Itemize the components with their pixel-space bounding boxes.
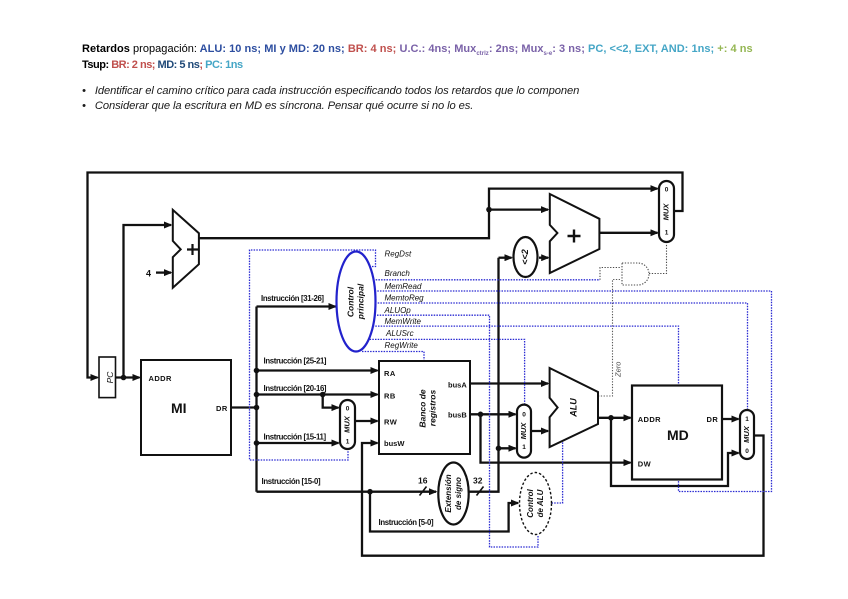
- wire ALU result to MD ADDR: [599, 417, 631, 419]
- svg-text:busW: busW: [384, 439, 405, 448]
- svg-text:RegWrite: RegWrite: [385, 341, 419, 350]
- wire instruccion 25-21 to RA: [257, 369, 378, 371]
- svg-text:0: 0: [522, 412, 526, 419]
- signal ALU control output: [552, 441, 563, 503]
- wire busB to ALUSrc mux0: [470, 413, 516, 415]
- signal MemWrite: [373, 326, 679, 384]
- svg-text:1: 1: [665, 230, 669, 237]
- wire PC out up to +4 adder: [124, 225, 172, 378]
- svg-text:0: 0: [665, 187, 669, 194]
- wire AND output to mux select: [649, 244, 667, 274]
- svg-text:0: 0: [346, 405, 350, 412]
- wire ALUSrc mux out to ALU: [531, 430, 548, 432]
- ALU: [550, 368, 598, 447]
- wire instruction bus from DR: [231, 406, 257, 408]
- svg-text:busB: busB: [448, 411, 467, 420]
- svg-text:DW: DW: [638, 460, 652, 469]
- wire branch to AND top input: [600, 268, 621, 280]
- memory MI: [141, 360, 231, 455]
- svg-text:ADDR: ADDR: [149, 374, 172, 383]
- mux ALUSrc: [517, 405, 531, 458]
- width marks 16 / 32: [420, 487, 484, 496]
- svg-text:MD: MD: [667, 427, 689, 443]
- adder PC+4: [146, 210, 199, 288]
- svg-text:MemWrite: MemWrite: [385, 317, 422, 326]
- wire PC to MI ADDR: [116, 376, 140, 378]
- signal MemtoReg: [375, 303, 748, 409]
- svg-text:de ALU: de ALU: [536, 489, 545, 517]
- AND gate (dotted): [598, 244, 667, 397]
- wire instruccion 20-16 to RB: [257, 393, 378, 395]
- wire regdst mux out to RW: [355, 420, 378, 422]
- svg-text:ALUOp: ALUOp: [384, 306, 412, 315]
- signal ALUOp: [374, 315, 538, 547]
- wire shift left 2 output to branch adder: [539, 257, 548, 259]
- mux PCSrc (top right): [659, 181, 674, 242]
- svg-text:32: 32: [473, 476, 483, 486]
- svg-text:Instrucción [20-16]: Instrucción [20-16]: [264, 384, 327, 393]
- wire constant 4 input: [156, 271, 171, 273]
- svg-text:MemRead: MemRead: [385, 282, 422, 291]
- wire PC+4 result to MUX0: [199, 189, 658, 239]
- svg-text:4: 4: [146, 269, 151, 279]
- register file Banco de registros: [379, 361, 470, 454]
- wire busA to ALU: [470, 382, 548, 384]
- wire ALU result bypass to result mux0: [611, 418, 739, 486]
- shift left 2: [514, 237, 538, 277]
- control signal labels: [384, 250, 425, 351]
- sign extend unit: [438, 463, 468, 525]
- mux RegDst (left): [340, 400, 355, 449]
- wire shift left 2 input: [499, 257, 512, 259]
- svg-text:MUX: MUX: [661, 203, 670, 221]
- svg-text:<<2: <<2: [520, 249, 530, 265]
- svg-text:Instrucción [25-21]: Instrucción [25-21]: [264, 357, 327, 366]
- wire PC+4 to branch adder top: [489, 208, 548, 210]
- wire branch adder result to MUX1: [599, 232, 657, 234]
- svg-text:Control: Control: [345, 286, 355, 317]
- svg-text:RW: RW: [384, 418, 398, 427]
- svg-text:principal: principal: [355, 283, 365, 320]
- wire instruccion 31-26 to control: [257, 305, 336, 307]
- svg-text:Instrucción [31-26]: Instrucción [31-26]: [261, 294, 324, 303]
- svg-text:MemtoReg: MemtoReg: [385, 293, 425, 302]
- svg-text:Control: Control: [526, 489, 535, 518]
- svg-text:RegDst: RegDst: [385, 250, 412, 259]
- svg-text:Branch: Branch: [385, 269, 411, 278]
- svg-text:busA: busA: [448, 381, 467, 390]
- svg-text:1: 1: [745, 416, 749, 423]
- ALU control unit: [520, 473, 552, 535]
- svg-text:Zero: Zero: [614, 362, 623, 378]
- svg-text:MUX: MUX: [519, 422, 528, 440]
- svg-text:Instrucción [15-11]: Instrucción [15-11]: [264, 433, 327, 442]
- wire zero to AND bottom input: [598, 280, 621, 397]
- svg-text:MUX: MUX: [342, 415, 351, 433]
- wire instruction bus vertical: [255, 307, 257, 492]
- svg-text:PC: PC: [105, 371, 115, 384]
- signal Branch: [373, 279, 600, 281]
- svg-text:DR: DR: [707, 415, 719, 424]
- instruction field labels: [261, 294, 434, 527]
- wire MD DR to result mux1: [722, 418, 739, 420]
- wire instruccion 5-0 to ALU control: [370, 492, 518, 532]
- wire result mux out to busW: [362, 436, 764, 556]
- signal MemRead: [375, 291, 772, 492]
- wire sign extend branch to ALUSrc mux1: [499, 447, 516, 449]
- control principal unit: [337, 252, 376, 352]
- svg-text:MI: MI: [171, 400, 187, 416]
- svg-text:MUX: MUX: [742, 425, 751, 443]
- svg-text:ADDR: ADDR: [638, 415, 661, 424]
- wire busB down to MD DW: [481, 414, 631, 462]
- svg-text:Instrucción [5-0]: Instrucción [5-0]: [379, 518, 434, 527]
- svg-text:registros: registros: [427, 390, 437, 427]
- svg-text:RB: RB: [384, 392, 396, 401]
- wire sign extend out up to shift: [470, 258, 499, 492]
- svg-text:de signo: de signo: [454, 477, 463, 510]
- svg-text:Banco de: Banco de: [417, 389, 427, 428]
- memory MD: [632, 386, 722, 480]
- wire instruccion 15-0 to sign extend: [257, 491, 437, 493]
- svg-text:16: 16: [418, 476, 428, 486]
- signal RegDst path: [250, 250, 376, 460]
- wire PC feedback (MUX output to PC input): [88, 173, 683, 378]
- wire instruccion 15-11 to mux1: [257, 442, 339, 444]
- signal ALUSrc: [370, 339, 525, 403]
- adder branch target: [550, 194, 600, 273]
- control signal lines (blue dotted): [250, 250, 772, 547]
- signal RegWrite: [362, 352, 424, 361]
- mux MemtoReg (right): [740, 410, 754, 459]
- svg-text:DR: DR: [216, 404, 228, 413]
- svg-text:Extensión: Extensión: [444, 474, 453, 512]
- svg-text:1: 1: [522, 444, 526, 451]
- svg-text:ALU: ALU: [568, 398, 578, 418]
- svg-text:1: 1: [346, 439, 350, 446]
- svg-text:RA: RA: [384, 369, 396, 378]
- wire instruccion 20-16 branch to mux0: [323, 395, 339, 408]
- svg-text:Instrucción [15-0]: Instrucción [15-0]: [262, 477, 321, 486]
- svg-text:ALUSrc: ALUSrc: [385, 329, 414, 338]
- svg-text:0: 0: [745, 448, 749, 455]
- PC register: [99, 357, 116, 398]
